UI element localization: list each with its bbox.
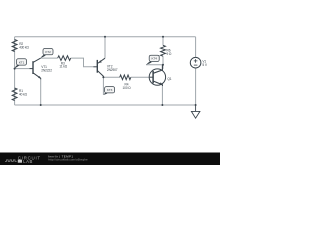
voltage source V1 (190, 57, 201, 68)
wire KT4 stub (146, 64, 163, 66)
svg-text:KT1: KT1 (19, 60, 25, 64)
wire VT1 base feed (15, 68, 30, 70)
node flag KT3 (103, 87, 114, 95)
wire R6 bottom to Q1 collector (162, 56, 164, 69)
wire VT1 collector to R3 (41, 57, 58, 59)
junction VT2 emitter at top rail (104, 36, 106, 38)
svg-text:http://circuitlab.com/c6bsqhe: http://circuitlab.com/c6bsqhe (48, 157, 88, 161)
junction VT1 emitter at bottom rail (40, 104, 42, 106)
svg-text:2N2907: 2N2907 (107, 68, 118, 72)
transistor VT1 2N2222 NPN (30, 58, 41, 79)
resistor R6 zigzag (161, 45, 166, 56)
svg-text:KT2: KT2 (45, 50, 51, 54)
junction R6 at top rail (162, 36, 164, 38)
watermark bar (0, 153, 220, 166)
wire R4 to Q1 base (131, 76, 150, 78)
svg-text:430 kΩ: 430 kΩ (19, 45, 29, 49)
wire R3 to jog down to VT2 base (71, 58, 94, 67)
svg-text:40 kΩ: 40 kΩ (19, 92, 28, 96)
wire Q1 emitter down (161, 86, 163, 105)
node flag KT1 (15, 59, 27, 69)
wire right vertical below V1 (195, 68, 197, 105)
node flag KT4 (146, 55, 159, 64)
svg-text:KT4: KT4 (152, 57, 158, 61)
node flag KT2 (41, 49, 53, 58)
svg-text:100 Ω: 100 Ω (123, 86, 132, 90)
svg-text:KT3: KT3 (107, 88, 113, 92)
svg-text:11 kΩ: 11 kΩ (59, 65, 67, 69)
wire R6 top stub (162, 37, 164, 46)
junction VT2 collector / R4 (KT3 net) (102, 76, 104, 78)
wire VT2 emitter to top rail (104, 37, 106, 58)
resistor R3 zigzag (58, 56, 71, 61)
VT2 emitter arrow (points to bar) (99, 60, 102, 63)
ground (191, 105, 200, 118)
svg-text:2N2222: 2N2222 (41, 69, 52, 73)
wire VT2 collector stub down (KT3 node) (102, 77, 104, 95)
VT1 emitter arrow (38, 76, 41, 79)
wire VT2 collector node to R4 (103, 76, 119, 78)
wire left vertical rail (14, 37, 16, 105)
junction Q1 emitter at bottom rail (161, 104, 163, 106)
junction KT1 node (base of VT1 / R1 / R2) (14, 68, 16, 70)
transistor Q1 NPN (circled) (149, 69, 165, 85)
resistor R4 zigzag (120, 75, 131, 80)
svg-text:Q1: Q1 (167, 77, 171, 81)
wire VT1 emitter down (40, 79, 42, 105)
wire top rail (15, 36, 196, 38)
resistor R2 zigzag (12, 40, 17, 52)
Q1 emitter arrow (159, 82, 162, 85)
svg-text:9 Ω: 9 Ω (167, 52, 172, 56)
wire right vertical above V1 (195, 37, 197, 58)
junction R6 / Q1 collector / KT4 stub (162, 64, 164, 66)
resistor R1 zigzag (12, 88, 17, 101)
junction V1 negative / ground at bottom rail (195, 104, 197, 106)
watermark logo waveform (5, 160, 17, 162)
labels (19, 42, 208, 97)
transistor VT2 2N2907 PNP (93, 58, 105, 77)
wire bottom rail (15, 104, 196, 106)
svg-text:LAB: LAB (23, 159, 33, 164)
